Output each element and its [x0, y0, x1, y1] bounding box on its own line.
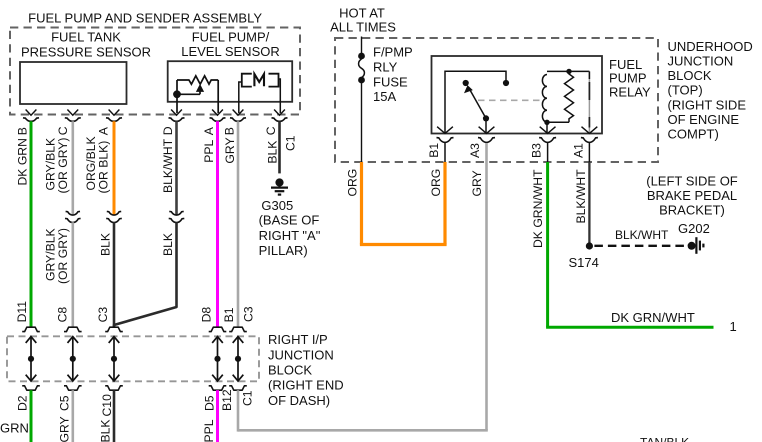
- svg-text:D2: D2: [16, 395, 30, 411]
- svg-text:HOT AT: HOT AT: [339, 6, 385, 21]
- svg-text:B12: B12: [220, 389, 234, 411]
- svg-text:RELAY: RELAY: [609, 84, 651, 99]
- wire ORG up to relay B1: [443, 162, 446, 245]
- dashed wire BLK/WHT S174 to G202: [594, 245, 687, 247]
- junction block pin D8/D5: [217, 337, 219, 381]
- fuel pump / level sensor box: [168, 61, 293, 102]
- svg-text:D5: D5: [202, 395, 216, 411]
- svg-text:FUEL PUMP/: FUEL PUMP/: [192, 29, 270, 44]
- svg-text:BLK/WHT: BLK/WHT: [615, 228, 669, 242]
- wire: coil to pin A1 (shown broken/dashed): [588, 71, 590, 133]
- wire: sender to pin A: [217, 80, 219, 113]
- svg-text:PPL: PPL: [202, 419, 216, 442]
- svg-text:G202: G202: [678, 221, 710, 236]
- wire: fuse to ORG: [361, 82, 363, 162]
- wire DK GRN from pin B: [30, 121, 33, 327]
- wire: motor to pin C: [279, 79, 281, 113]
- svg-text:A3: A3: [468, 143, 482, 158]
- svg-text:F/PMP: F/PMP: [373, 44, 413, 59]
- svg-text:(OR GRY): (OR GRY): [56, 138, 70, 194]
- relay fixed contact dot: [503, 80, 509, 86]
- wiper arm of level sender: [197, 85, 204, 91]
- svg-text:PUMP: PUMP: [609, 71, 647, 86]
- svg-text:G305: G305: [261, 198, 293, 213]
- svg-text:C: C: [56, 126, 70, 135]
- fuel pump pin B terminal: [233, 110, 244, 116]
- wire BLK from pin C to G305: [278, 121, 281, 173]
- svg-text:15A: 15A: [373, 89, 396, 104]
- svg-text:RIGHT I/P: RIGHT I/P: [268, 332, 328, 347]
- junction block pin C3/C10: [113, 337, 115, 381]
- svg-text:PRESSURE SENSOR: PRESSURE SENSOR: [21, 44, 151, 59]
- relay moving contact dot: [483, 115, 489, 121]
- relay pin B3 terminal: [540, 127, 556, 134]
- svg-text:RIGHT "A": RIGHT "A": [259, 228, 321, 243]
- svg-text:D: D: [161, 126, 175, 135]
- wire GRY from relay A3 down: [485, 143, 488, 430]
- svg-text:DK GRN/WHT: DK GRN/WHT: [611, 310, 695, 325]
- svg-text:OF DASH): OF DASH): [268, 393, 330, 408]
- wire BLK/WHT from relay A1 to S174: [588, 162, 590, 246]
- svg-text:DK GRN: DK GRN: [16, 138, 30, 185]
- fuel pump and sender assembly dashed box: [10, 28, 300, 115]
- wire ORG fuse drop: [360, 162, 363, 245]
- svg-text:C10: C10: [100, 394, 114, 417]
- svg-text:ALL TIMES: ALL TIMES: [330, 20, 396, 35]
- junction block bracket above pin C3/C10: [105, 327, 123, 331]
- svg-text:BLK: BLK: [99, 419, 113, 442]
- junction dot on sender: [173, 90, 181, 98]
- junction block pin D11/D2: [30, 337, 32, 381]
- svg-text:BLOCK: BLOCK: [668, 68, 712, 83]
- wire GRN below block: [30, 390, 33, 442]
- svg-text:RLY: RLY: [373, 60, 398, 75]
- wire BLK/WHT from pin D: [175, 121, 178, 214]
- svg-text:FUSE: FUSE: [373, 74, 408, 89]
- junction block pin C8/C5: [72, 337, 74, 381]
- fuse F/PMP RLY 15A: [358, 53, 365, 60]
- svg-text:B: B: [16, 127, 30, 135]
- fuel pump relay box U1: [432, 56, 603, 134]
- relay mechanical link (dashed): [478, 99, 543, 101]
- svg-text:GRY: GRY: [223, 137, 237, 163]
- svg-text:C8: C8: [56, 307, 70, 323]
- junction block bracket below pin D11/D2: [22, 386, 40, 390]
- wire GRY from pin B: [237, 121, 240, 327]
- svg-text:C3: C3: [241, 306, 255, 322]
- svg-text:BLOCK: BLOCK: [268, 363, 312, 378]
- junction block bracket above pin C8/C5: [64, 327, 82, 331]
- svg-text:S174: S174: [569, 255, 599, 270]
- junction block bracket above pin D8/D5: [209, 327, 227, 331]
- wire: battery feed into fuse: [361, 37, 363, 57]
- fuel pump pin C terminal: [274, 110, 285, 116]
- wire GRY below block to A3 run: [237, 390, 240, 431]
- wire BLK below block: [113, 390, 116, 442]
- svg-text:A1: A1: [571, 143, 585, 158]
- svg-text:(RIGHT END: (RIGHT END: [268, 378, 344, 393]
- svg-text:C1: C1: [241, 390, 255, 406]
- wire: motor to pin B: [239, 82, 242, 113]
- svg-text:BLK: BLK: [99, 233, 113, 256]
- svg-text:GRN: GRN: [0, 421, 29, 436]
- svg-text:C3: C3: [96, 307, 110, 323]
- svg-text:GRY: GRY: [57, 416, 71, 442]
- fuel pump motor M: [242, 74, 252, 87]
- svg-text:BLK/WHT: BLK/WHT: [161, 138, 175, 193]
- fuel tank pressure sensor box: [20, 62, 127, 104]
- svg-text:1: 1: [730, 319, 737, 334]
- svg-text:D11: D11: [15, 301, 29, 323]
- relay armature: [469, 89, 486, 119]
- svg-text:B3: B3: [530, 143, 544, 158]
- svg-text:BLK: BLK: [266, 141, 280, 164]
- svg-text:LEVEL SENSOR: LEVEL SENSOR: [181, 44, 280, 59]
- svg-text:B1: B1: [427, 143, 441, 158]
- junction block bracket below pin B1/B12: [229, 386, 247, 390]
- svg-text:GRY: GRY: [470, 170, 484, 196]
- svg-text:(TOP): (TOP): [668, 83, 703, 98]
- junction block pin B1/B12: [237, 337, 239, 381]
- fuel pump pin D terminal: [171, 110, 182, 116]
- wire GRY/BLK from pin C: [72, 121, 75, 214]
- svg-text:BRACKET): BRACKET): [659, 203, 725, 218]
- svg-text:C5: C5: [57, 395, 71, 411]
- relay pin A1 terminal: [582, 127, 598, 134]
- underhood junction block dashed box: [335, 38, 658, 162]
- junction block bracket below pin C3/C10: [105, 386, 123, 390]
- coil top junction dot: [566, 69, 571, 74]
- relay pin A3 terminal: [479, 127, 495, 134]
- pressure sensor pin C terminal: [67, 110, 78, 116]
- in-line connector on ORG/BLK wire: [107, 211, 121, 215]
- pressure sensor pin A terminal: [109, 110, 120, 116]
- svg-text:D8: D8: [200, 307, 214, 323]
- svg-text:JUNCTION: JUNCTION: [668, 54, 734, 69]
- relay pin B1 terminal: [437, 127, 453, 134]
- svg-text:JUNCTION: JUNCTION: [268, 347, 334, 362]
- wire GRY/BLK lower: [72, 222, 75, 327]
- junction block bracket above pin B1/B12: [229, 327, 247, 331]
- svg-text:(BASE OF: (BASE OF: [259, 212, 320, 227]
- svg-text:A: A: [97, 126, 111, 135]
- right I/P junction block dashed box: [7, 336, 259, 381]
- svg-text:A: A: [202, 126, 216, 135]
- svg-text:OF ENGINE: OF ENGINE: [668, 112, 740, 127]
- wire BLK lower (from BLK/WHT) joining C3: [114, 222, 177, 327]
- wire PPL from pin A: [216, 121, 219, 327]
- wire ORG/BLK from pin A: [113, 121, 116, 214]
- svg-text:C1: C1: [284, 135, 298, 151]
- svg-text:TAN/BLK: TAN/BLK: [640, 435, 689, 442]
- in-line connector on GRY/BLK wire: [66, 211, 80, 215]
- junction block bracket below pin C8/C5: [64, 386, 82, 390]
- svg-text:PILLAR): PILLAR): [259, 243, 308, 258]
- splice S174: [586, 242, 593, 249]
- svg-text:BRAKE PEDAL: BRAKE PEDAL: [647, 188, 737, 203]
- svg-text:DK GRN/WHT: DK GRN/WHT: [531, 169, 545, 248]
- ground G202: [688, 242, 696, 250]
- junction block bracket above pin D11/D2: [22, 327, 40, 331]
- svg-text:UNDERHOOD: UNDERHOOD: [668, 39, 753, 54]
- svg-text:(RIGHT SIDE: (RIGHT SIDE: [668, 97, 747, 112]
- wire DK GRN/WHT horizontal run: [546, 326, 713, 329]
- wire PPL below block: [216, 390, 219, 442]
- relay switch common feed (pin B1): [445, 71, 506, 133]
- relay solenoid winding: [542, 75, 547, 123]
- wire GRY bottom run to junction block: [238, 429, 488, 432]
- svg-text:ORG: ORG: [346, 169, 360, 197]
- svg-text:BLK: BLK: [161, 233, 175, 256]
- svg-text:COMPT): COMPT): [668, 127, 719, 142]
- svg-text:C: C: [264, 126, 278, 135]
- relay coil top conductor: [547, 70, 589, 72]
- wire: coil to pin B3: [546, 122, 548, 133]
- svg-text:FUEL: FUEL: [609, 57, 642, 72]
- ground G305: [275, 178, 283, 186]
- svg-text:BLK/WHT: BLK/WHT: [574, 169, 588, 224]
- wire DK GRN/WHT from relay B3: [546, 162, 549, 327]
- svg-text:B: B: [223, 127, 237, 135]
- svg-text:(OR BLK): (OR BLK): [97, 141, 111, 194]
- svg-text:FUEL TANK: FUEL TANK: [51, 29, 121, 44]
- svg-text:ORG: ORG: [429, 169, 443, 197]
- relay contact dot (NO): [463, 80, 469, 86]
- wire: armature to pin A3: [485, 118, 487, 133]
- coil bottom junction dot: [544, 120, 549, 125]
- svg-text:(LEFT SIDE OF: (LEFT SIDE OF: [646, 174, 738, 189]
- wire: sender to pin D: [176, 94, 178, 113]
- svg-text:B1: B1: [222, 307, 236, 322]
- relay coil resistor zigzag: [565, 71, 574, 122]
- svg-text:(OR GRY): (OR GRY): [56, 228, 70, 284]
- svg-text:PPL: PPL: [202, 140, 216, 163]
- wire ORG bottom run: [360, 243, 447, 246]
- fuel pump pin A terminal: [212, 110, 223, 116]
- in-line connector on BLK/WHT wire: [169, 211, 183, 215]
- variable resistor (fuel level sender): [177, 76, 218, 84]
- svg-text:FUEL PUMP AND SENDER ASSEMBLY: FUEL PUMP AND SENDER ASSEMBLY: [28, 10, 262, 25]
- junction block bracket below pin D8/D5: [209, 386, 227, 390]
- wire BLK lower (from ORG/BLK): [113, 222, 116, 327]
- pressure sensor pin B terminal: [26, 110, 37, 116]
- wire GRY below block: [72, 390, 75, 442]
